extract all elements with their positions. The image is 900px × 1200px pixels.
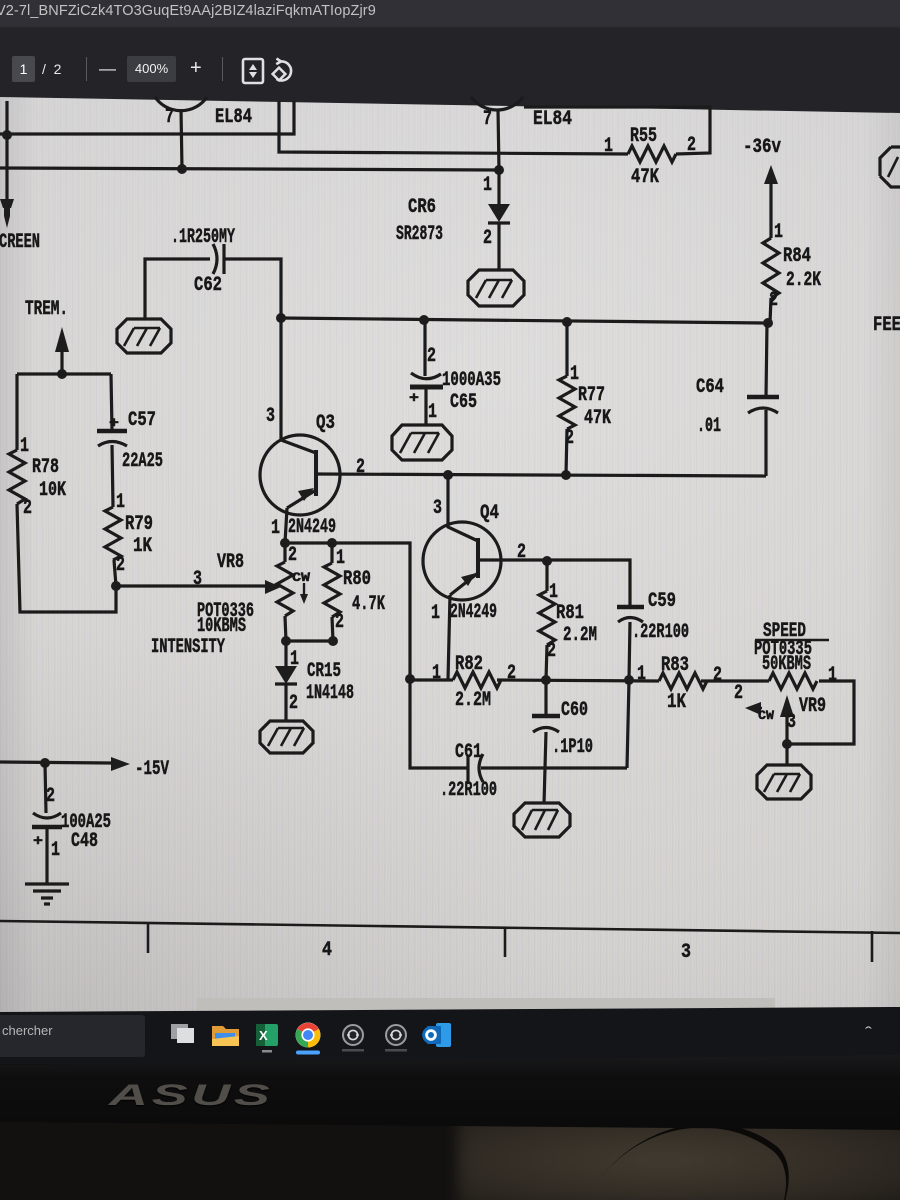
svg-text:+: +	[109, 415, 119, 432]
VR8 CW mark arrow	[303, 583, 305, 595]
capacitor C65 (electrolytic)	[423, 320, 426, 376]
transistor Q4 body	[423, 522, 501, 600]
resistor R78 zigzag	[9, 450, 25, 504]
svg-text:1: 1	[428, 401, 437, 424]
resistor R79 zigzag	[105, 507, 121, 560]
svg-text:2: 2	[713, 664, 722, 687]
ground chassis (C60)	[514, 803, 570, 837]
svg-text:10K: 10K	[39, 479, 66, 502]
svg-text:1: 1	[549, 581, 558, 604]
svg-text:1: 1	[483, 174, 492, 197]
svg-text:3: 3	[681, 941, 691, 964]
Q4 collector wire	[448, 475, 478, 541]
wire C62 right down to bus	[224, 259, 281, 318]
svg-text:2: 2	[734, 682, 743, 705]
wire C60 to ground	[544, 768, 545, 804]
svg-text:CW: CW	[292, 570, 310, 585]
-15V arrow	[111, 757, 130, 771]
svg-text:1: 1	[774, 221, 783, 244]
svg-text:R80: R80	[343, 568, 371, 591]
svg-text:1: 1	[570, 363, 579, 386]
taskbar icons	[168, 1020, 468, 1056]
svg-text:C60: C60	[561, 699, 588, 722]
svg-text:2N4249: 2N4249	[450, 601, 497, 624]
diode CR15	[284, 641, 287, 666]
resistor R80	[330, 543, 333, 563]
node: V2/CR6 junction on bus B	[494, 165, 504, 175]
node VR9 wiper junction	[782, 739, 792, 749]
svg-text:+: +	[33, 833, 43, 850]
svg-text:Q4: Q4	[480, 502, 499, 525]
svg-text:2: 2	[483, 227, 492, 250]
node VR8 bottom	[281, 636, 291, 646]
resistor R77	[565, 322, 568, 376]
wire tube V2 cathode down	[498, 109, 499, 170]
svg-text:FEE: FEE	[873, 314, 900, 337]
svg-text:R78: R78	[32, 456, 59, 479]
svg-text:R82: R82	[455, 653, 483, 676]
svg-text:.22R100: .22R100	[440, 779, 497, 802]
svg-text:CW: CW	[758, 708, 774, 723]
svg-text:TREM.: TREM.	[25, 298, 68, 321]
svg-text:2: 2	[427, 345, 436, 368]
ground chassis (VR9)	[757, 765, 811, 799]
Q4 base lead to C59 branch	[478, 560, 630, 607]
wire R78 bottom loop	[17, 504, 116, 612]
svg-text:2.2M: 2.2M	[563, 624, 597, 647]
wire top of R78/C57 loop	[17, 372, 111, 375]
svg-text:1: 1	[637, 663, 646, 686]
SPEED underline	[755, 639, 829, 642]
node R77 bottom junction	[561, 470, 571, 480]
svg-text:10KBMS: 10KBMS	[197, 615, 246, 638]
wire C62 left to ground	[145, 259, 210, 319]
svg-text:3: 3	[266, 405, 275, 428]
tube V1 EL84 (bottom arc)	[155, 97, 207, 111]
svg-text:47K: 47K	[631, 166, 659, 189]
node: junction on net A feeding SCREEN arrow	[2, 130, 12, 140]
svg-text:2: 2	[335, 611, 344, 634]
svg-text:.22R100: .22R100	[632, 621, 689, 644]
svg-text:C57: C57	[128, 409, 156, 432]
border tick 3	[871, 931, 874, 962]
svg-text:2: 2	[289, 692, 298, 715]
svg-text:+: +	[409, 390, 419, 407]
schematic sheet border	[0, 921, 900, 933]
resistor R84 zigzag	[763, 238, 779, 298]
svg-text:2: 2	[116, 554, 125, 577]
svg-text:EL84: EL84	[215, 106, 252, 129]
TREM arrow up	[55, 327, 69, 352]
ground earth (C48)	[25, 884, 69, 904]
svg-text:C64: C64	[696, 376, 724, 399]
svg-text:-15V: -15V	[135, 758, 169, 781]
capacitor C60	[544, 680, 547, 716]
svg-text:C62: C62	[194, 274, 222, 297]
svg-text:1: 1	[271, 517, 280, 540]
svg-text:R83: R83	[661, 654, 689, 677]
svg-text:2: 2	[565, 427, 574, 450]
wire VR9 pin1 loop to wiper	[787, 681, 854, 744]
svg-text:EL84: EL84	[533, 108, 572, 131]
svg-text:3: 3	[433, 497, 442, 520]
svg-text:1: 1	[51, 839, 60, 862]
capacitor C57 (electrolytic)	[97, 429, 127, 434]
wire C57 to R79	[112, 445, 113, 507]
svg-text:2.2M: 2.2M	[455, 689, 491, 712]
capacitor C64	[766, 323, 767, 397]
svg-text:3: 3	[787, 711, 796, 734]
capacitor C61	[466, 755, 469, 782]
capacitor C48 (electrolytic)	[45, 763, 46, 813]
svg-text:R81: R81	[556, 602, 584, 625]
svg-text:-36v: -36v	[743, 136, 781, 159]
wire to VR8 wiper	[116, 584, 266, 587]
svg-text:3: 3	[193, 568, 202, 591]
svg-text:SR2873: SR2873	[396, 223, 443, 246]
ground chassis partial (FEEDBACK, right edge)	[880, 147, 900, 187]
node C60 top junction	[541, 675, 551, 685]
svg-text:C61: C61	[455, 741, 482, 764]
resistor R55 zigzag	[628, 146, 676, 162]
svg-text:2: 2	[23, 497, 32, 520]
wire: vertical from top feeding R55 line	[279, 101, 628, 154]
svg-text:R77: R77	[578, 384, 605, 407]
svg-text:1: 1	[828, 664, 837, 687]
Q4 base bar	[476, 538, 480, 578]
diode CR6	[497, 170, 500, 204]
VR9 CW mark arrow	[748, 707, 762, 709]
potentiometer VR9 zigzag	[769, 673, 817, 689]
svg-text:50KBMS: 50KBMS	[762, 653, 811, 676]
node TREM junction	[57, 369, 67, 379]
Q4 emitter with arrow	[450, 573, 478, 595]
wire VR8/R80 bottoms	[286, 639, 333, 642]
svg-text:2: 2	[547, 640, 556, 663]
ground chassis (C62)	[117, 319, 171, 353]
svg-text:2: 2	[46, 785, 55, 808]
node C59 bottom junction	[624, 675, 634, 685]
Q3 base lead / lower bus to C64	[316, 474, 766, 476]
svg-text:1K: 1K	[667, 691, 686, 714]
svg-text:2: 2	[507, 662, 516, 685]
svg-text:1000A35: 1000A35	[442, 369, 501, 392]
node Q4 collector junction	[443, 470, 453, 480]
svg-text:R79: R79	[125, 513, 153, 536]
Q3 collector wire from bus	[281, 318, 316, 453]
svg-text:2: 2	[687, 134, 696, 157]
svg-text:1: 1	[604, 135, 613, 158]
svg-text:CREEN: CREEN	[0, 231, 40, 254]
resistor R81	[545, 561, 548, 591]
svg-text:CR15: CR15	[307, 660, 341, 683]
capacitor C59	[617, 605, 644, 610]
svg-text:1: 1	[432, 662, 441, 685]
node R82 left junction	[405, 674, 415, 684]
svg-text:.1R250MY: .1R250MY	[171, 226, 235, 249]
node R79/wiper junction	[111, 581, 121, 591]
SCREEN arrow	[0, 199, 14, 228]
svg-text:.1P10: .1P10	[552, 736, 593, 759]
svg-text:2: 2	[769, 289, 778, 312]
wire C57 top lead	[111, 374, 112, 430]
svg-text:1: 1	[116, 491, 125, 514]
wire tube V1 cathode down to bus	[181, 109, 182, 169]
VR8 wiper arrow	[265, 580, 281, 594]
wire: top-left horizontal net A to left edge	[0, 101, 294, 134]
svg-text:Q3: Q3	[316, 412, 335, 435]
wire C61 bottom bus	[410, 679, 468, 768]
svg-text:22A25: 22A25	[122, 450, 163, 473]
svg-text:1K: 1K	[133, 535, 152, 558]
svg-text:1N4148: 1N4148	[306, 682, 354, 705]
svg-text:7: 7	[483, 108, 492, 131]
ground chassis (CR6)	[468, 270, 524, 306]
VR9 wiper arrow up	[780, 695, 794, 717]
wire -15V feed from left edge	[0, 762, 111, 763]
potentiometer VR8 zigzag	[283, 543, 286, 562]
-36v supply arrow	[764, 165, 778, 184]
svg-text:1: 1	[20, 435, 29, 458]
svg-text:R84: R84	[783, 245, 811, 268]
ground chassis (CR15)	[260, 721, 313, 753]
svg-text:1: 1	[336, 547, 345, 570]
wire R84 to bus	[770, 298, 771, 323]
svg-text:R55: R55	[630, 125, 657, 148]
wire R78 top lead	[15, 374, 18, 450]
node R81 top junction	[542, 556, 552, 566]
wire Q3 emitter row	[285, 543, 410, 679]
transistor Q3 body	[260, 435, 340, 515]
svg-text:VR9: VR9	[799, 695, 826, 718]
svg-text:1: 1	[290, 648, 299, 671]
node: V1 junction on bus B	[177, 164, 187, 174]
svg-text:2.2K: 2.2K	[786, 269, 821, 292]
svg-text:VR8: VR8	[217, 551, 244, 574]
wire SCREEN drop	[5, 101, 8, 199]
svg-text:.01: .01	[697, 415, 721, 438]
Q3 base bar	[314, 450, 318, 496]
wire R79 bottom	[114, 560, 116, 586]
wire: bus B across top	[0, 168, 499, 170]
svg-text:X: X	[259, 1028, 268, 1043]
svg-text:C48: C48	[71, 830, 98, 853]
resistor R83 zigzag	[659, 673, 707, 689]
node junctions on mid bus	[276, 313, 286, 323]
tube V2 EL84 (bottom arc)	[471, 97, 523, 110]
svg-text:C65: C65	[450, 391, 477, 414]
svg-text:4.7K: 4.7K	[352, 593, 385, 616]
svg-text:CR6: CR6	[408, 196, 436, 219]
ground chassis (C65)	[392, 425, 452, 460]
svg-text:2N4249: 2N4249	[288, 516, 336, 539]
node VR8 top junction	[280, 538, 290, 548]
svg-text:1: 1	[431, 602, 440, 625]
svg-text:2: 2	[356, 456, 365, 479]
node C48 junction	[40, 758, 50, 768]
svg-text:47K: 47K	[584, 407, 611, 430]
wire up to C59 node	[627, 680, 629, 768]
wire VR9 wiper to ground	[785, 744, 788, 766]
svg-text:7: 7	[165, 106, 174, 129]
resistor R82 zigzag	[453, 672, 501, 688]
wire R55 pin2 up to tube V2 plate	[524, 107, 710, 154]
svg-text:4: 4	[322, 939, 332, 962]
svg-text:C59: C59	[648, 590, 676, 613]
svg-text:2: 2	[517, 541, 526, 564]
border tick 1	[147, 923, 150, 953]
svg-text:2: 2	[288, 544, 297, 567]
capacitor C62	[213, 244, 217, 274]
node R80 bottom	[328, 636, 338, 646]
svg-text:INTENSITY: INTENSITY	[151, 636, 225, 659]
wire: upper mid bus (C62 node to R84/C64)	[281, 318, 768, 323]
border tick 2	[504, 927, 507, 957]
node R80 top junction	[327, 538, 337, 548]
wire lower bus R82 row	[410, 678, 453, 681]
Q3 emitter with arrow	[287, 490, 316, 508]
